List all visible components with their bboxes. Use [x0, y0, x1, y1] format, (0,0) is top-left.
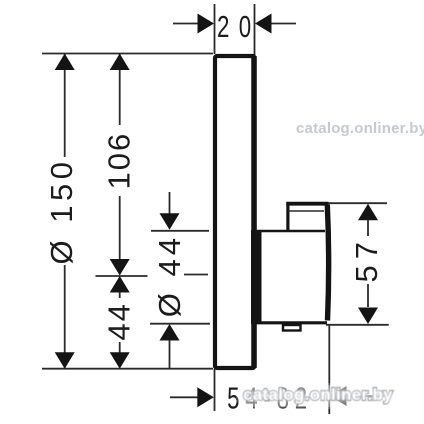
svg-text:57: 57	[349, 236, 384, 282]
svg-text:Ø 44: Ø 44	[152, 234, 187, 317]
svg-text:44: 44	[102, 302, 137, 340]
svg-text:Ø 150: Ø 150	[44, 158, 79, 265]
svg-text:20: 20	[217, 9, 261, 43]
svg-text:106: 106	[102, 132, 137, 190]
